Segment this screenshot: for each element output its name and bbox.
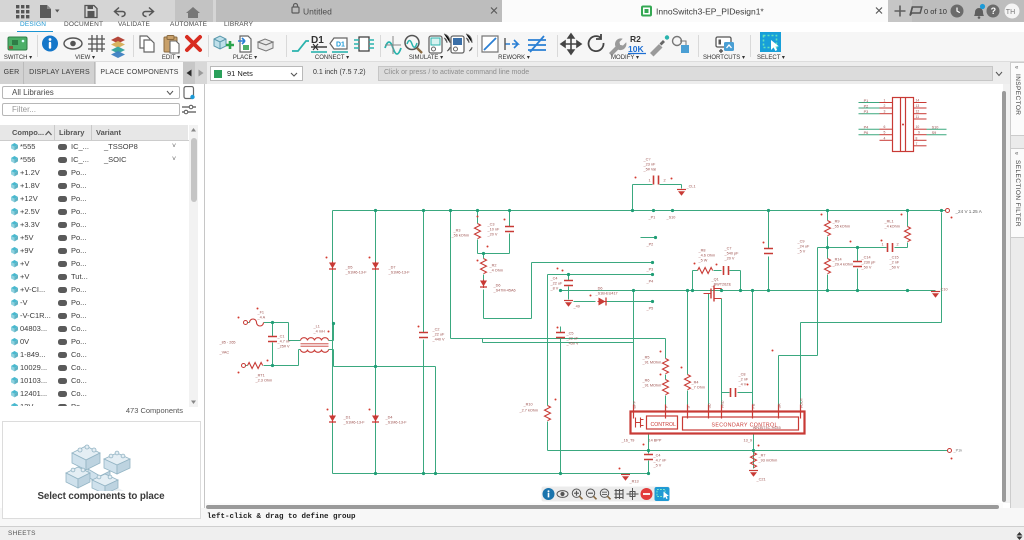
svg-text:2: 2 — [897, 243, 899, 247]
svg-text:_P3: _P3 — [861, 110, 869, 114]
svg-text:_4 A: _4 A — [257, 316, 266, 320]
svg-text:Untitled: Untitled — [303, 7, 332, 17]
svg-text:_VAC: _VAC — [219, 351, 230, 355]
svg-text:_C4: _C4 — [653, 454, 661, 458]
svg-text:14: 14 — [916, 99, 920, 103]
svg-text:_S10: _S10 — [929, 126, 939, 130]
svg-text:_4 V: _4 V — [738, 383, 747, 387]
svg-text:_23 nF: _23 nF — [643, 163, 657, 167]
svg-text:_24 V 1.25 A: _24 V 1.25 A — [955, 209, 983, 214]
svg-text:_4 Ohm: _4 Ohm — [489, 269, 504, 273]
svg-text:_C10: _C10 — [938, 288, 948, 292]
svg-text:_R14: _R14 — [832, 258, 842, 262]
svg-text:_22 uF: _22 uF — [550, 282, 564, 286]
svg-text:6: 6 — [884, 125, 886, 129]
svg-text:_D6: _D6 — [595, 287, 603, 291]
svg-text:_R9: _R9 — [832, 220, 840, 224]
svg-text:_P4: _P4 — [646, 280, 654, 284]
svg-text:_55 kOhm: _55 kOhm — [832, 225, 851, 229]
svg-text:_F1: _F1 — [257, 311, 265, 315]
svg-text:_R13: _R13 — [629, 480, 639, 484]
svg-text:CONTROL: CONTROL — [651, 422, 676, 428]
svg-text:_8 V: _8 V — [550, 287, 559, 291]
svg-text:_2 nF: _2 nF — [738, 378, 749, 382]
svg-text:SD: SD — [708, 403, 712, 409]
svg-text:_D6: _D6 — [493, 284, 501, 288]
svg-text:_L1: _L1 — [313, 325, 320, 329]
svg-text:_85 - 265: _85 - 265 — [219, 341, 236, 345]
svg-text:_24 uF: _24 uF — [797, 245, 811, 249]
svg-text:_22 uF: _22 uF — [566, 337, 580, 341]
svg-text:_P2: _P2 — [861, 105, 869, 109]
svg-text:_Q1: _Q1 — [711, 278, 719, 282]
svg-text:_S10: _S10 — [666, 216, 676, 220]
svg-text:_230 pF: _230 pF — [861, 261, 877, 265]
svg-text:_56 kOhm: _56 kOhm — [451, 234, 470, 238]
svg-text:_5 V: _5 V — [797, 250, 806, 254]
svg-text:_4 mH: _4 mH — [313, 330, 325, 334]
svg-text:_P1k: _P1k — [953, 449, 963, 453]
svg-text:_C1: _C1 — [277, 335, 285, 339]
svg-text:_4 kOhm: _4 kOhm — [884, 225, 900, 229]
svg-text:_C4: _C4 — [550, 277, 558, 281]
svg-text:_2.3 Ohm: _2.3 Ohm — [255, 379, 273, 383]
svg-text:_R7: _R7 — [758, 454, 766, 458]
svg-text:_R6: _R6 — [642, 379, 650, 383]
svg-text:1: 1 — [882, 243, 884, 247]
svg-text:?: ? — [991, 6, 997, 16]
svg-text:_P2: _P2 — [646, 243, 654, 247]
svg-text:_5# Val: _5# Val — [643, 168, 657, 172]
svg-text:_20 V: _20 V — [724, 257, 735, 261]
svg-text:_C3: _C3 — [487, 223, 495, 227]
svg-text:_2.7 kOhm: _2.7 kOhm — [519, 409, 539, 413]
svg-text:11: 11 — [916, 115, 920, 119]
svg-text:_BWT26ZE: _BWT26ZE — [711, 283, 732, 287]
svg-text:_5 W: _5 W — [698, 259, 708, 263]
svg-text:_540 pF: _540 pF — [724, 252, 740, 256]
svg-text:_S1B-EU417: _S1B-EU417 — [595, 292, 618, 296]
svg-text:_D7: _D7 — [388, 266, 396, 270]
svg-text:_P1: _P1 — [648, 216, 656, 220]
svg-text:2: 2 — [664, 179, 666, 183]
svg-text:_49: _49 — [573, 305, 580, 309]
svg-text:_CL1: _CL1 — [686, 185, 696, 189]
svg-text:_16_T9: _16_T9 — [621, 439, 635, 443]
svg-text:_P3: _P3 — [646, 268, 654, 272]
svg-text:_440 V: _440 V — [432, 338, 446, 342]
svg-text:1: 1 — [649, 179, 651, 183]
svg-text:0 of 10: 0 of 10 — [924, 7, 947, 16]
svg-text:_C7: _C7 — [724, 247, 732, 251]
svg-text:BPP: BPP — [633, 400, 637, 408]
svg-text:2: 2 — [884, 104, 886, 108]
svg-text:_S9: _S9 — [929, 131, 937, 135]
svg-text:_25# V: _25# V — [277, 345, 291, 349]
svg-text:_C5: _C5 — [566, 332, 574, 336]
svg-text:D1: D1 — [336, 42, 345, 49]
svg-text:_4.6 Ohm: _4.6 Ohm — [698, 254, 716, 258]
svg-text:_29.4 kOhm: _29.4 kOhm — [832, 263, 854, 267]
svg-text:_91 MOhm: _91 MOhm — [642, 384, 662, 388]
svg-text:5: 5 — [884, 131, 886, 135]
svg-text:_93 mOhm: _93 mOhm — [758, 459, 778, 463]
svg-text:_S1M6-13-F: _S1M6-13-F — [343, 421, 366, 425]
svg-text:_R3: _R3 — [453, 229, 461, 233]
svg-text:_C15: _C15 — [889, 256, 899, 260]
svg-text:_C14: _C14 — [861, 256, 871, 260]
svg-text:_R4: _R4 — [691, 381, 699, 385]
svg-text:_20 V: _20 V — [487, 233, 498, 237]
svg-text:10K: 10K — [628, 44, 644, 54]
svg-text:SR: SR — [778, 403, 782, 409]
svg-text:_R2: _R2 — [489, 264, 497, 268]
svg-text:_R10: _R10 — [523, 403, 533, 407]
svg-text:VND: VND — [721, 400, 725, 408]
svg-text:1: 1 — [884, 99, 886, 103]
svg-text:FB: FB — [752, 403, 756, 408]
svg-text:_2 nF: _2 nF — [889, 261, 900, 265]
svg-text:4: 4 — [884, 136, 886, 140]
svg-text:_C21: _C21 — [756, 478, 766, 482]
svg-text:_7 Ohm: _7 Ohm — [691, 386, 706, 390]
svg-text:_D1: _D1 — [343, 416, 351, 420]
svg-text:_C2: _C2 — [432, 328, 440, 332]
svg-text:TH: TH — [1006, 9, 1015, 16]
svg-text:_INN3674C-H645: _INN3674C-H645 — [750, 426, 781, 430]
svg-text:_C?: _C? — [643, 158, 651, 162]
svg-text:_C8: _C8 — [738, 373, 746, 377]
svg-text:_5 V: _5 V — [653, 464, 662, 468]
svg-text:_RT1: _RT1 — [255, 374, 265, 378]
svg-text:_50 V: _50 V — [889, 266, 900, 270]
svg-text:_450 V: _450 V — [566, 342, 580, 346]
svg-text:VOUT: VOUT — [800, 397, 804, 408]
svg-text:_P1: _P1 — [861, 99, 869, 103]
svg-text:_10 nF: _10 nF — [487, 228, 501, 232]
svg-text:8: 8 — [916, 136, 918, 140]
svg-text:10: 10 — [916, 125, 920, 129]
svg-text:_4.7 nF: _4.7 nF — [653, 459, 668, 463]
svg-text:3: 3 — [884, 110, 886, 114]
svg-text:_4.7 nF: _4.7 nF — [277, 340, 292, 344]
svg-text:_P6: _P6 — [861, 131, 869, 135]
svg-text:_22 uF: _22 uF — [432, 333, 446, 337]
svg-text:_S1M6-13-F: _S1M6-13-F — [385, 421, 408, 425]
svg-text:_P5: _P5 — [646, 307, 654, 311]
svg-text:_R8: _R8 — [698, 249, 706, 253]
svg-text:_P4: _P4 — [861, 126, 869, 130]
svg-text:InnoSwitch3-EP_PIDesign1*: InnoSwitch3-EP_PIDesign1* — [656, 7, 764, 17]
svg-text:_D5: _D5 — [345, 266, 353, 270]
svg-text:14 BPP: 14 BPP — [649, 439, 662, 443]
svg-text:_S47M-45A6: _S47M-45A6 — [493, 289, 516, 293]
svg-text:_50 V: _50 V — [861, 266, 872, 270]
svg-text:13: 13 — [916, 104, 920, 108]
svg-text:13_9: 13_9 — [744, 439, 752, 443]
svg-text:_D4: _D4 — [385, 416, 393, 420]
svg-text:_S1M6-13-F: _S1M6-13-F — [388, 271, 411, 275]
svg-text:R2: R2 — [630, 34, 641, 44]
svg-text:_91 MOhm: _91 MOhm — [642, 361, 662, 365]
svg-text:9: 9 — [918, 131, 920, 135]
svg-text:_RL1: _RL1 — [884, 220, 894, 224]
svg-text:_S1M6-13-F: _S1M6-13-F — [345, 271, 368, 275]
svg-text:7: 7 — [916, 142, 918, 146]
svg-text:_C9: _C9 — [797, 240, 805, 244]
svg-text:12: 12 — [916, 110, 920, 114]
svg-text:_R5: _R5 — [642, 356, 650, 360]
